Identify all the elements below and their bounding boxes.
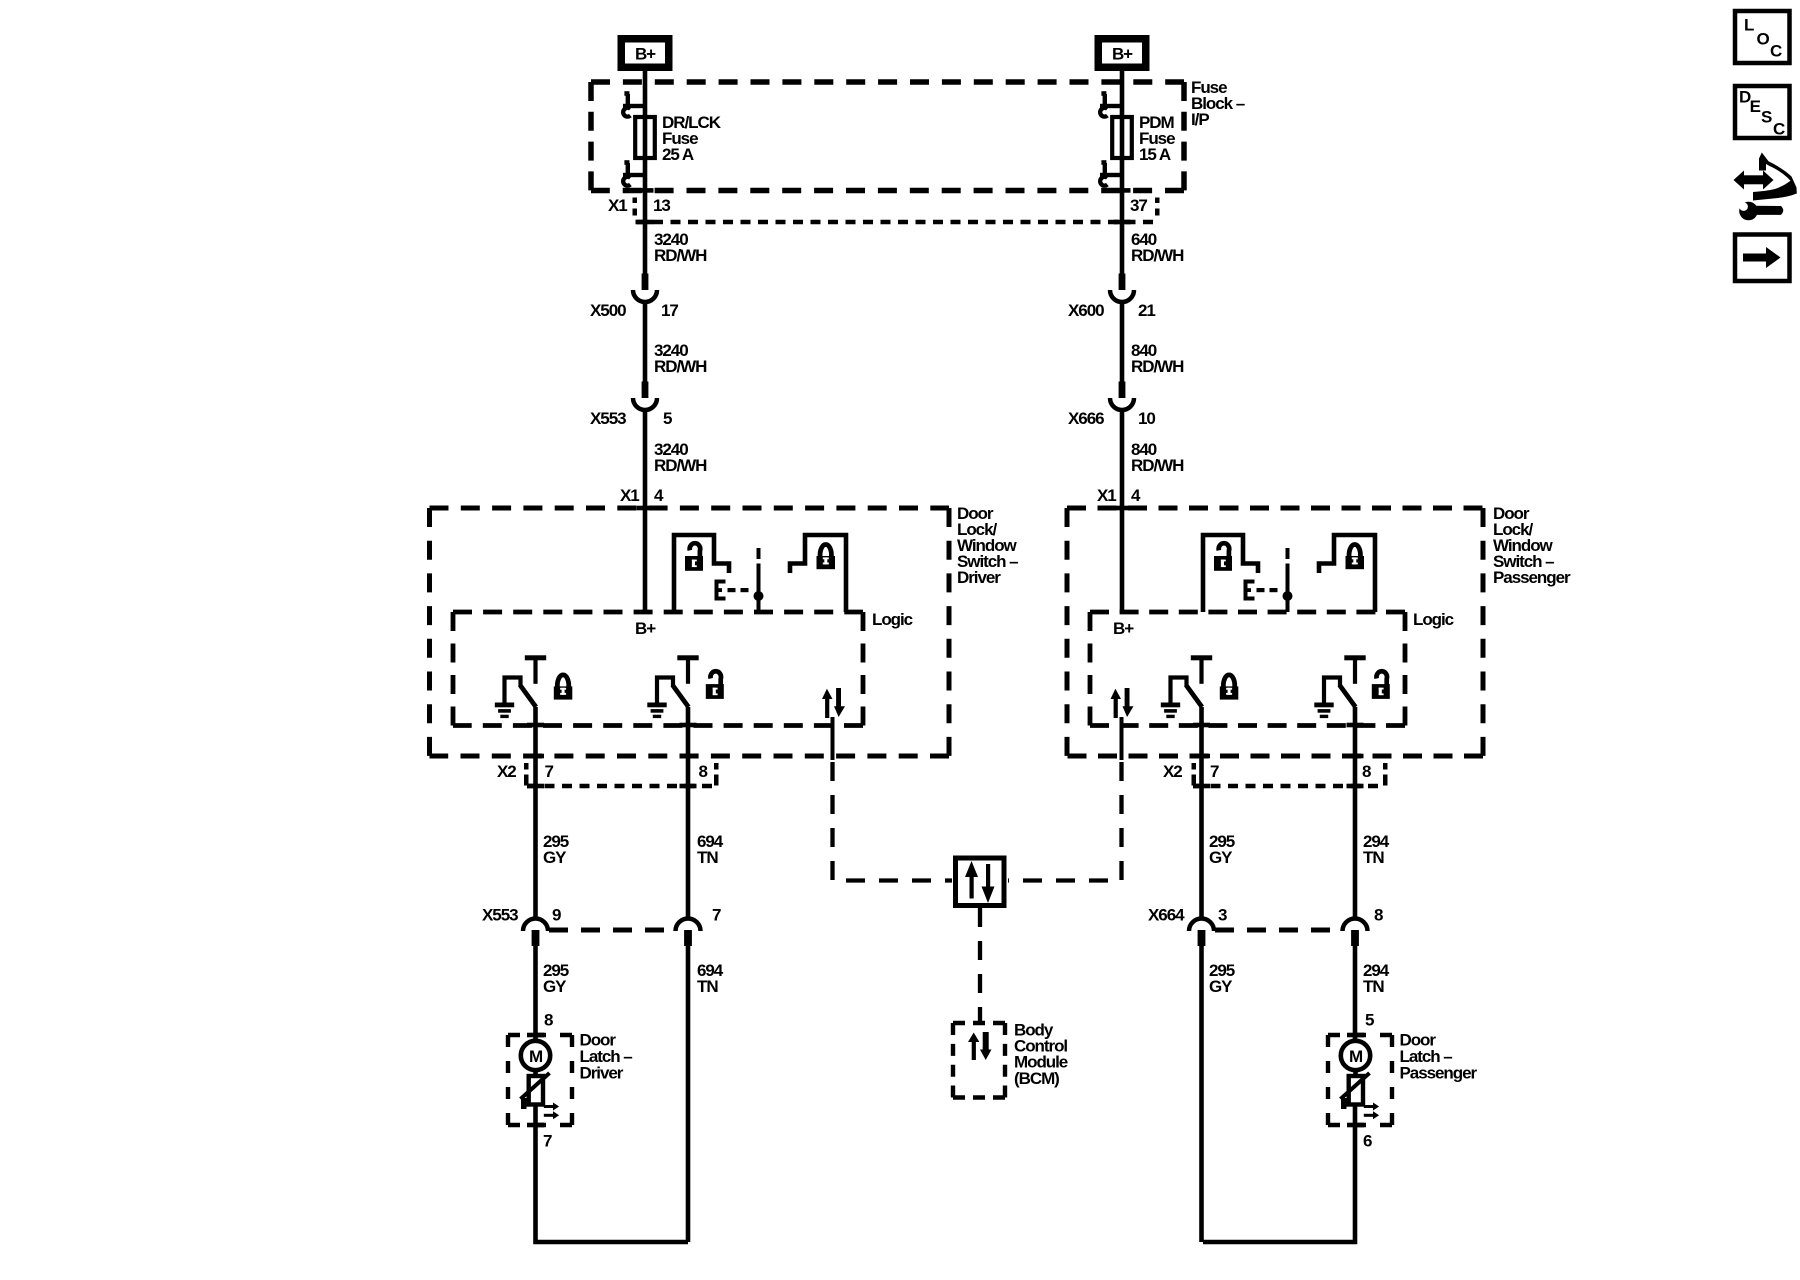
svg-text:X500: X500 — [590, 301, 626, 320]
svg-text:TN: TN — [1363, 848, 1384, 867]
svg-text:7: 7 — [543, 1132, 552, 1151]
svg-text:TN: TN — [1363, 977, 1384, 996]
svg-text:37: 37 — [1130, 196, 1147, 215]
svg-text:6: 6 — [1363, 1132, 1372, 1151]
svg-text:RD/WH: RD/WH — [654, 456, 707, 475]
svg-text:7: 7 — [1210, 762, 1219, 781]
svg-text:8: 8 — [544, 1011, 553, 1030]
svg-text:C: C — [1773, 120, 1785, 139]
svg-text:7: 7 — [545, 762, 554, 781]
svg-text:GY: GY — [1209, 977, 1233, 996]
svg-text:8: 8 — [1362, 762, 1371, 781]
svg-text:L: L — [1744, 16, 1754, 35]
svg-text:TN: TN — [697, 848, 718, 867]
svg-text:Logic: Logic — [872, 610, 913, 629]
svg-text:(BCM): (BCM) — [1014, 1069, 1059, 1088]
svg-text:X553: X553 — [590, 409, 626, 428]
svg-text:X664: X664 — [1148, 906, 1185, 925]
svg-text:10: 10 — [1138, 409, 1155, 428]
svg-text:C: C — [1770, 42, 1782, 61]
svg-text:8: 8 — [699, 762, 708, 781]
svg-text:3: 3 — [1218, 906, 1227, 925]
svg-text:I/P: I/P — [1191, 110, 1209, 129]
svg-text:25 A: 25 A — [662, 145, 694, 164]
svg-text:X2: X2 — [497, 762, 516, 781]
svg-text:X1: X1 — [620, 486, 639, 505]
svg-text:13: 13 — [653, 196, 670, 215]
svg-text:RD/WH: RD/WH — [654, 246, 707, 265]
svg-text:RD/WH: RD/WH — [1131, 456, 1184, 475]
svg-text:GY: GY — [543, 848, 567, 867]
svg-text:RD/WH: RD/WH — [654, 357, 707, 376]
svg-text:RD/WH: RD/WH — [1131, 246, 1184, 265]
svg-text:RD/WH: RD/WH — [1131, 357, 1184, 376]
svg-text:Logic: Logic — [1413, 610, 1454, 629]
svg-text:X666: X666 — [1068, 409, 1104, 428]
svg-text:7: 7 — [712, 906, 721, 925]
svg-text:X1: X1 — [608, 196, 627, 215]
svg-text:X553: X553 — [482, 906, 518, 925]
svg-text:O: O — [1757, 30, 1770, 49]
svg-text:E: E — [1750, 97, 1761, 116]
svg-text:X2: X2 — [1163, 762, 1182, 781]
svg-text:X600: X600 — [1068, 301, 1104, 320]
svg-text:Passenger: Passenger — [1493, 568, 1571, 587]
svg-text:B+: B+ — [1113, 619, 1134, 638]
svg-text:Driver: Driver — [580, 1064, 624, 1083]
svg-text:X1: X1 — [1097, 486, 1116, 505]
svg-text:5: 5 — [663, 409, 672, 428]
svg-text:Driver: Driver — [957, 568, 1001, 587]
svg-text:17: 17 — [661, 301, 678, 320]
svg-text:TN: TN — [697, 977, 718, 996]
svg-text:Passenger: Passenger — [1400, 1064, 1478, 1083]
svg-text:8: 8 — [1374, 906, 1383, 925]
svg-text:GY: GY — [543, 977, 567, 996]
svg-text:B+: B+ — [635, 619, 656, 638]
svg-text:21: 21 — [1138, 301, 1155, 320]
svg-text:15 A: 15 A — [1139, 145, 1171, 164]
svg-text:S: S — [1761, 108, 1772, 127]
svg-text:5: 5 — [1365, 1011, 1374, 1030]
svg-text:GY: GY — [1209, 848, 1233, 867]
svg-text:9: 9 — [552, 906, 561, 925]
